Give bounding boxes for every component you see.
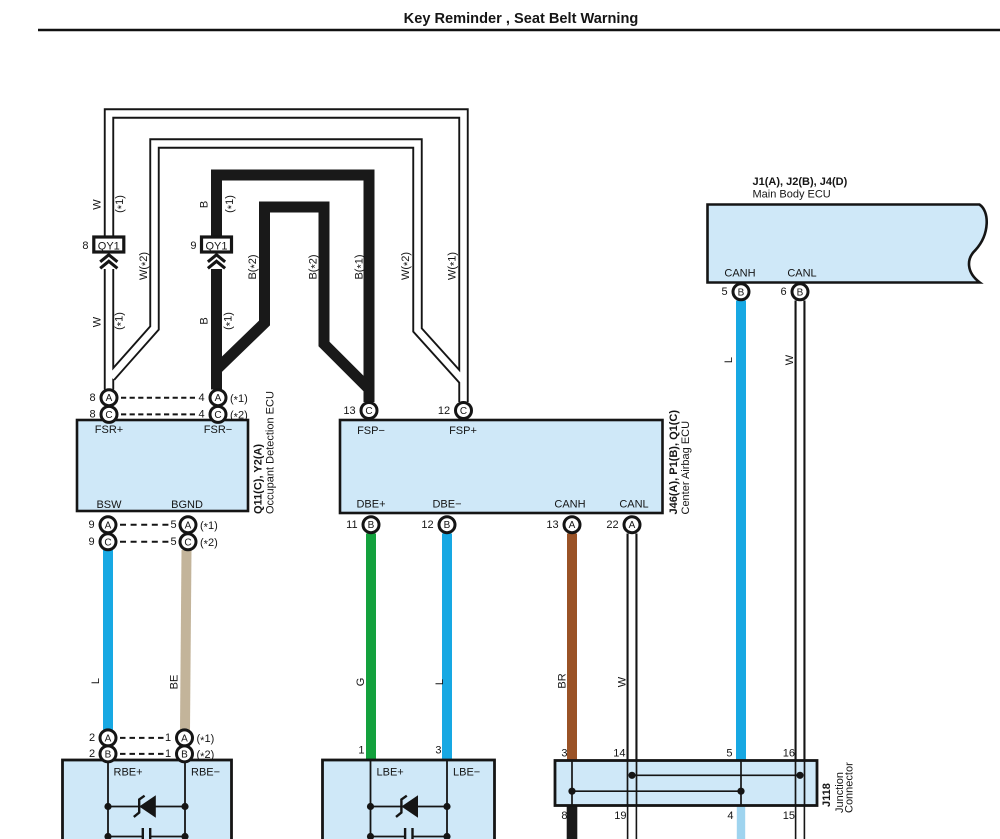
RBE diode bus <box>108 806 185 808</box>
svg-text:(*1): (*1) <box>230 393 248 407</box>
svg-text:W: W <box>617 676 629 687</box>
svg-text:B(*2): B(*2) <box>247 254 261 279</box>
svg-text:Occupant Detection ECU: Occupant Detection ECU <box>265 391 277 514</box>
RBE capacitor plates <box>143 828 150 839</box>
svg-text:L: L <box>434 679 446 685</box>
pin 8(C) FSR+ <box>89 406 117 422</box>
svg-text:Connector: Connector <box>844 762 856 813</box>
wire B below QY1-9 down to pin 4(A) <box>211 269 222 390</box>
svg-text:J46(A), P1(B), Q1(C): J46(A), P1(B), Q1(C) <box>668 410 680 515</box>
svg-text:4: 4 <box>198 392 204 404</box>
svg-text:B: B <box>181 749 188 760</box>
svg-text:B: B <box>199 317 211 324</box>
svg-text:A: A <box>106 393 113 404</box>
LBE buckle switch box <box>323 760 495 839</box>
svg-text:A: A <box>215 393 222 404</box>
svg-text:B(*2): B(*2) <box>308 254 322 279</box>
svg-text:5: 5 <box>170 519 176 531</box>
svg-text:15: 15 <box>783 810 795 822</box>
svg-text:FSP+: FSP+ <box>449 425 477 437</box>
svg-text:(*1): (*1) <box>114 312 128 330</box>
svg-text:LBE−: LBE− <box>453 767 480 779</box>
Occupant Detection ECU box <box>77 420 248 511</box>
svg-text:BGND: BGND <box>171 499 203 511</box>
bus CANL: pin 14 to pin 16 <box>632 774 800 776</box>
svg-text:A: A <box>185 520 192 531</box>
svg-text:FSR+: FSR+ <box>95 424 123 436</box>
svg-text:W: W <box>784 354 796 365</box>
dashed link RBE row2 <box>120 753 166 755</box>
junction dot pin4-bus <box>737 788 744 795</box>
bus CANH: pin 8 to pin 4 <box>572 790 741 792</box>
svg-text:FSP−: FSP− <box>357 425 385 437</box>
svg-text:QY1: QY1 <box>205 240 227 252</box>
pin 13(A) CANH <box>546 517 580 533</box>
svg-text:(*2): (*2) <box>230 410 248 424</box>
svg-text:J1(A), J2(B), J4(D): J1(A), J2(B), J4(D) <box>753 176 848 188</box>
svg-text:BE: BE <box>169 675 181 690</box>
svg-text:6: 6 <box>780 286 786 298</box>
svg-text:12: 12 <box>421 519 433 531</box>
svg-text:16: 16 <box>783 748 795 760</box>
svg-text:1: 1 <box>165 748 171 760</box>
pin 9(A) BSW <box>88 517 116 533</box>
svg-text:8: 8 <box>82 240 88 252</box>
svg-text:(*2): (*2) <box>200 537 218 551</box>
dashed link FSR+ row1 <box>121 397 196 399</box>
wire W(*1) loop: QY1-8 top to pin 12(C) of Center Airbag ECU <box>109 114 464 403</box>
noise filter QY1 (pin 9) <box>190 237 231 252</box>
LBE pin 3 internal line <box>446 760 448 839</box>
wire L (blue) DBE- to LBE- <box>442 534 452 763</box>
svg-text:B: B <box>797 287 804 298</box>
LBE diode bus <box>371 806 448 808</box>
svg-text:B: B <box>199 201 211 208</box>
svg-text:4: 4 <box>198 409 204 421</box>
wire white below J118 pin 15 <box>795 804 805 839</box>
svg-text:1: 1 <box>165 732 171 744</box>
svg-text:L: L <box>90 678 102 684</box>
pin 5(B) Main Body CANH <box>721 284 749 300</box>
pin 5(C) BGND <box>170 534 217 551</box>
noise filter QY1 (pin 8) <box>82 237 123 252</box>
svg-text:(*1): (*1) <box>114 195 128 213</box>
wire B(*2) loop: merges into B wire above pin 4(A) and above pin 13(C) <box>217 207 369 389</box>
svg-text:3: 3 <box>561 748 567 760</box>
svg-text:W(*2): W(*2) <box>138 252 152 280</box>
svg-text:8: 8 <box>561 810 567 822</box>
svg-text:9: 9 <box>88 519 94 531</box>
RBE buckle switch box <box>63 760 232 839</box>
wire B(*1) loop: QY1-9 top to pin 13(C) of Center Airbag ECU <box>217 175 370 402</box>
pin 13(C) FSP- <box>343 403 377 419</box>
svg-text:1: 1 <box>358 745 364 757</box>
pin 4(C) FSR- <box>198 406 247 423</box>
svg-text:(*1): (*1) <box>223 312 237 330</box>
svg-text:A: A <box>105 520 112 531</box>
svg-text:(*1): (*1) <box>224 195 238 213</box>
svg-text:B: B <box>738 287 745 298</box>
svg-text:DBE+: DBE+ <box>356 499 385 511</box>
svg-text:G: G <box>355 678 367 687</box>
svg-text:9: 9 <box>88 536 94 548</box>
svg-text:13: 13 <box>546 519 558 531</box>
pin 8(A) FSR+ <box>89 390 117 406</box>
svg-text:LBE+: LBE+ <box>377 767 404 779</box>
svg-text:9: 9 <box>190 240 196 252</box>
Center Airbag ECU box <box>340 420 663 513</box>
svg-text:2: 2 <box>89 732 95 744</box>
svg-text:C: C <box>184 537 191 548</box>
RBE capacitor bus <box>108 836 142 838</box>
svg-text:W: W <box>92 199 104 210</box>
svg-text:A: A <box>629 520 636 531</box>
svg-text:CANH: CANH <box>724 268 755 280</box>
wire W(*2) loop: merges into W wire above pin 8(A) and above pin 12(C) <box>111 144 464 382</box>
svg-text:A: A <box>181 733 188 744</box>
svg-text:14: 14 <box>613 748 625 760</box>
pin 22(A) CANL <box>606 517 640 533</box>
svg-text:5: 5 <box>170 536 176 548</box>
svg-text:(*2): (*2) <box>197 749 215 763</box>
Main Body ECU box (torn right edge) <box>708 205 987 283</box>
wire BR (brown) CANH to J118 pin 3 <box>567 534 577 763</box>
wire W (white) CANL to J118 pin 14 <box>627 534 638 763</box>
junction connector J118 box <box>555 761 817 806</box>
pin 2(A) RBE+ <box>89 730 116 746</box>
wire black below J118 pin 8 <box>567 804 578 839</box>
RBE zener diode <box>134 795 156 817</box>
wire BE (beige) BGND to RBE- <box>185 550 187 730</box>
svg-text:Center Airbag ECU: Center Airbag ECU <box>680 421 692 515</box>
pin 6(B) Main Body CANL <box>780 284 808 300</box>
pin 5(A) BGND <box>170 517 217 534</box>
LBE zener diode <box>396 795 418 817</box>
svg-text:C: C <box>214 410 221 421</box>
wire L (blue) BSW to RBE+ <box>103 550 113 730</box>
LBE pin 1 internal line <box>370 760 372 839</box>
svg-text:B(*1): B(*1) <box>354 254 368 279</box>
svg-text:C: C <box>365 406 372 417</box>
svg-text:5: 5 <box>721 286 727 298</box>
svg-text:W(*2): W(*2) <box>400 252 414 280</box>
svg-text:C: C <box>105 410 112 421</box>
svg-text:RBE−: RBE− <box>191 767 220 779</box>
svg-text:8: 8 <box>89 392 95 404</box>
pin 3/8 through line <box>571 761 573 806</box>
svg-text:11: 11 <box>346 519 357 531</box>
wire white below J118 pin 19 <box>627 804 637 839</box>
svg-text:J118: J118 <box>821 783 833 807</box>
svg-text:13: 13 <box>343 405 355 417</box>
svg-text:BR: BR <box>557 673 569 688</box>
svg-text:Q11(C), Y2(A): Q11(C), Y2(A) <box>253 444 265 514</box>
chevron arrows below QY1-9 <box>208 255 225 268</box>
junction dot pin16-bus <box>796 772 803 779</box>
LBE capacitor bus <box>371 836 405 838</box>
svg-text:3: 3 <box>435 745 441 757</box>
svg-text:5: 5 <box>726 748 732 760</box>
svg-text:19: 19 <box>614 810 626 822</box>
pin 1(A) RBE- <box>165 730 214 747</box>
svg-text:12: 12 <box>438 405 450 417</box>
svg-text:(*1): (*1) <box>197 733 215 747</box>
svg-text:DBE−: DBE− <box>432 499 461 511</box>
RBE junction dots <box>104 803 111 810</box>
svg-text:BSW: BSW <box>96 499 122 511</box>
svg-text:W: W <box>92 316 104 327</box>
svg-text:QY1: QY1 <box>98 240 120 252</box>
LBE junction dots <box>367 803 374 810</box>
chevron arrows below QY1-8 <box>100 255 117 268</box>
svg-text:B: B <box>368 520 375 531</box>
pin 9(C) BSW <box>88 534 116 550</box>
RBE pin 2 internal line <box>107 760 109 839</box>
svg-text:8: 8 <box>89 409 95 421</box>
svg-text:C: C <box>104 537 111 548</box>
svg-text:FSR−: FSR− <box>204 424 232 436</box>
RBE pin 1 internal line <box>184 760 186 839</box>
junction dot pin8-bus <box>568 788 575 795</box>
pin 12(B) DBE- <box>421 517 455 533</box>
svg-text:A: A <box>569 520 576 531</box>
svg-text:22: 22 <box>606 519 618 531</box>
pin 14/19 through lines (white wire edges) <box>627 761 629 806</box>
wire W (white) Main Body CANL to J118 pin 16 <box>795 301 806 763</box>
svg-text:B: B <box>444 520 451 531</box>
pin 11(B) DBE+ <box>346 517 379 533</box>
pin 12(C) FSP+ <box>438 403 472 419</box>
svg-text:CANL: CANL <box>787 268 816 280</box>
white cores of W wires <box>109 114 464 403</box>
svg-text:L: L <box>723 357 735 363</box>
dashed link BSW row1 <box>120 524 172 526</box>
dashed link FSR+ row2 <box>121 413 196 415</box>
wire L (blue) Main Body CANH to J118 pin 5 <box>736 301 746 763</box>
svg-text:Key Reminder , Seat Belt Warni: Key Reminder , Seat Belt Warning <box>404 11 639 27</box>
svg-text:CANL: CANL <box>619 499 648 511</box>
pin 2(B) RBE+ <box>89 746 116 762</box>
pin 16/15 through lines (white wire edges) <box>795 761 797 806</box>
svg-text:A: A <box>105 733 112 744</box>
svg-text:2: 2 <box>89 748 95 760</box>
dashed link RBE row1 <box>120 737 166 739</box>
wire W below QY1-8 down to pin 8(A) <box>104 269 114 390</box>
svg-text:4: 4 <box>727 810 733 822</box>
svg-text:(*1): (*1) <box>200 520 218 534</box>
dashed link BSW row2 <box>120 541 172 543</box>
wire G (green) DBE+ to LBE+ <box>366 534 376 763</box>
pin 1(B) RBE- <box>165 746 214 763</box>
LBE capacitor plates <box>405 828 412 839</box>
svg-text:CANH: CANH <box>554 499 585 511</box>
svg-text:W(*1): W(*1) <box>447 252 461 280</box>
svg-text:RBE+: RBE+ <box>114 767 143 779</box>
wire pale blue below J118 pin 4 <box>737 804 745 839</box>
title underline <box>38 29 1000 32</box>
junction dot pin14-bus <box>628 772 635 779</box>
pin 4(A) FSR- <box>198 390 247 407</box>
svg-text:Main Body ECU: Main Body ECU <box>753 189 831 201</box>
svg-text:B: B <box>105 749 112 760</box>
pin 5/4 through line <box>740 761 742 806</box>
svg-text:C: C <box>460 406 467 417</box>
